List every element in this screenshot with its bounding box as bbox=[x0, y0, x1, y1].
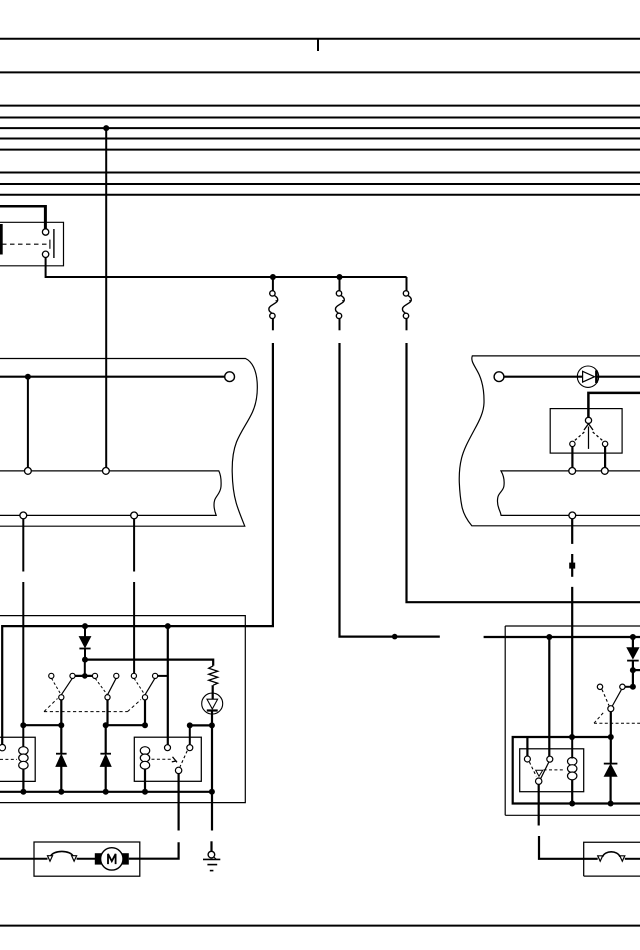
left door switch assembly box (wavy right edge) bbox=[0, 359, 257, 527]
terminal: relay RL3 left bbox=[524, 756, 530, 762]
terminal: S3 left bbox=[597, 684, 602, 689]
diode D4 (up, middle) bbox=[100, 725, 111, 792]
power window motor box (driver) bbox=[34, 842, 140, 876]
switch S3 solid arm bbox=[612, 690, 621, 706]
wire: relay RL2 common down out of box bbox=[178, 774, 180, 831]
switch T-bar feed bbox=[73, 675, 96, 677]
relay RL3 box bbox=[520, 749, 584, 792]
diode D5 (filled, pointing down) bbox=[627, 637, 639, 687]
terminal: pole2 left bbox=[92, 673, 97, 678]
wire: feed dot down to relay RL3 right terminal bbox=[548, 637, 550, 756]
relay RL2 box bbox=[134, 737, 201, 781]
wire: relay RL2 coil to ground bus bbox=[144, 769, 146, 792]
wire: bus line 5 bbox=[0, 127, 640, 129]
wire: ground bus of master switch bbox=[0, 791, 212, 793]
node: dot on right feed wire bbox=[546, 634, 552, 640]
switch S2 arm with arrowhead bbox=[575, 424, 603, 449]
wire: breaker CB2 to page edge bbox=[625, 858, 640, 860]
node: dot on master feed at diode D2 bbox=[82, 623, 88, 629]
wire: stub from D5 node to page edge bbox=[633, 669, 640, 671]
passenger motor box (cut off) bbox=[584, 842, 640, 876]
terminal: switch S2 throw left bbox=[570, 441, 575, 446]
node: dot on T-bar bbox=[82, 673, 88, 679]
wire: relay R1 top terminal drop bbox=[44, 205, 47, 229]
node: dot on master feed at right branch bbox=[165, 623, 171, 629]
terminal: relay RL2 right bbox=[187, 745, 193, 751]
relay RL3 contact dashed alternate bbox=[529, 762, 536, 776]
wire: S3 pivot down to bus bbox=[610, 712, 612, 737]
node: dot on fuse F2 branch bbox=[392, 634, 398, 640]
diode D6 (up) bbox=[604, 737, 618, 804]
wire: right box internal bus bbox=[504, 376, 583, 378]
wire: S2 throw right to connector bbox=[604, 447, 606, 468]
relay RL2 linkage dashed bbox=[152, 758, 172, 760]
wire: relay R1 output to fuse row bbox=[46, 258, 407, 278]
wire: left connector out 1 down to master switch bbox=[22, 519, 24, 572]
right connector box (wavy left edge) bbox=[497, 471, 640, 516]
wire: bus line 4 bbox=[0, 117, 640, 119]
wire: pole3 pivot down bbox=[144, 700, 146, 725]
wire: fuse F3 output down, elbow right to page edge bbox=[407, 343, 640, 602]
node: fuse row dot 2 bbox=[337, 274, 343, 280]
circuit breaker CB1 bbox=[48, 851, 77, 861]
wire: bus line 6 bbox=[0, 138, 640, 140]
node: junction dot on bus line 5 bbox=[103, 125, 109, 131]
wire: S2 throw left to connector bbox=[571, 447, 573, 468]
ground G1 bbox=[203, 841, 220, 870]
wire: jumper segment B bbox=[106, 724, 145, 726]
terminal: switch S2 throw right bbox=[602, 441, 607, 446]
relay RL3 solid arm bbox=[541, 762, 549, 778]
relay RL3 coil bbox=[568, 757, 577, 779]
node: dot bottom bus at coil bbox=[569, 801, 575, 807]
wire: pole1 pivot down bbox=[60, 700, 62, 725]
wire: diode D1 output to page edge bbox=[598, 376, 640, 378]
pivot: pole1 bbox=[59, 695, 64, 700]
terminal: left box bus end bbox=[225, 372, 235, 382]
terminal: pole1 left bbox=[49, 673, 54, 678]
pivot: S3 bbox=[608, 706, 614, 712]
master switch pole alternates (dashed) bbox=[52, 678, 145, 695]
terminal: relay RL3 right bbox=[547, 756, 553, 762]
wire: feed into motor box from page edge bbox=[0, 858, 48, 860]
wire: drop from left box bus bbox=[27, 377, 29, 468]
diode D2 (filled, pointing down) bbox=[79, 626, 90, 660]
wire: to S3 right terminal bbox=[625, 686, 633, 688]
terminal: left connector in 2 bbox=[103, 468, 110, 475]
node: dot below D5 with stub to page edge bbox=[630, 667, 636, 673]
wire: bus line 7 bbox=[0, 149, 640, 151]
wire: branch from D2 to illumination resistor bbox=[85, 660, 213, 666]
wire: bus line 10 bbox=[0, 194, 640, 196]
LED / illumination diode in circle bbox=[202, 693, 223, 714]
circuit breaker CB2 bbox=[598, 852, 625, 861]
wire: bus line 9 bbox=[0, 183, 640, 185]
relay RL2 contact arm dashed bbox=[180, 751, 187, 767]
relay RL2 linkage tick bbox=[172, 757, 177, 763]
relay RL1 linkage dashed bbox=[0, 758, 17, 760]
pivot: relay RL3 bbox=[536, 778, 542, 784]
terminal: pole1 right bbox=[70, 673, 75, 678]
wire: LED down through ground bus to break bbox=[211, 711, 213, 831]
wire: diode D2 to switch T-bar bbox=[84, 660, 86, 676]
wire: pole3 right terminal to branch bbox=[158, 675, 168, 677]
tick on bus line 1 bbox=[317, 39, 319, 51]
switch S2 box bbox=[550, 409, 622, 454]
terminal: relay RL1 contact bbox=[0, 744, 6, 750]
terminal: left connector in 1 bbox=[25, 468, 32, 475]
wire: jumper segment A bbox=[23, 724, 61, 726]
terminal: right connector out bbox=[569, 512, 576, 519]
terminal: left connector out 1 bbox=[20, 512, 27, 519]
relay R1 box bbox=[0, 222, 64, 265]
wire: bus line 3 bbox=[0, 105, 640, 107]
relay RL1 box bbox=[0, 737, 35, 781]
diode D1 in circle bbox=[577, 366, 598, 387]
terminal: pole3 left bbox=[131, 673, 136, 678]
right door switch assembly box (wavy left edge) bbox=[459, 356, 640, 526]
node: dot bottom bus at diode D6 bbox=[608, 801, 614, 807]
relay R1 coil (cut off at page edge) bbox=[0, 224, 3, 255]
wire: free-end feed into right lower box bbox=[484, 636, 640, 638]
terminal: pole2 right bbox=[114, 673, 119, 678]
terminal: pole3 right bbox=[153, 673, 158, 678]
bottom border line bbox=[0, 925, 640, 927]
wire: motor to master switch relay (with connector break) bbox=[129, 842, 179, 859]
node: dot on right feed wire at diode bbox=[630, 634, 636, 640]
terminal: left connector out 2 bbox=[131, 512, 138, 519]
motor M1 bbox=[95, 848, 129, 870]
power window master switch box bbox=[0, 616, 245, 803]
pivot: pole3 bbox=[142, 695, 147, 700]
wire: breaker to motor bbox=[77, 858, 95, 860]
wire: fuse F1 output down into master switch feed bbox=[2, 343, 273, 744]
terminal: right box bus start bbox=[494, 372, 504, 382]
relay RL3 linkage dashed bbox=[544, 769, 565, 771]
switch mechanical linkage (dashed) bbox=[44, 699, 141, 712]
wire: vertical drop from bus line 5 to left connector bbox=[105, 128, 107, 467]
diode D3 (up, left) bbox=[56, 725, 67, 792]
node: dot middle bus at S3 drop bbox=[608, 734, 614, 740]
relay R1 contact bar bbox=[53, 229, 55, 258]
wire: right branch down to relay RL2 terminal bbox=[167, 626, 169, 745]
wire: RL3 common down out of box (with break) bbox=[538, 784, 540, 825]
node: fuse row dot 1 bbox=[270, 274, 276, 280]
terminal: right connector in 1 bbox=[569, 468, 576, 475]
fuse F3 (symbol) bbox=[402, 277, 411, 330]
switch S3 dashed alternate bbox=[602, 690, 609, 706]
S3 linkage dashed bbox=[594, 713, 640, 724]
fuse F2 (symbol) bbox=[335, 277, 344, 330]
node: dot at switch S3 right terminal level bbox=[630, 684, 636, 690]
wire: elbow from page edge into switch S2 bbox=[588, 393, 640, 418]
node dots on ground bus bbox=[20, 789, 215, 795]
node: dot on left box bus bbox=[25, 374, 31, 380]
wire: fuse F2 output down, elbow right, free end bbox=[340, 343, 440, 637]
wire: right connector out down to lower box bbox=[571, 519, 573, 544]
resistor R2 (zigzag) bbox=[209, 666, 218, 685]
fuse F1 (symbol) bbox=[269, 277, 278, 330]
wire: RL3 coil stub from bus bbox=[571, 737, 573, 759]
relay RL2 coil bbox=[140, 747, 149, 769]
relay R1 linkage dashed bbox=[2, 240, 50, 249]
wire: relay RL3 left terminal up to middle bus bbox=[526, 737, 528, 756]
right lower box: passenger window relay unit bbox=[505, 626, 640, 815]
node: dot middle bus at coil bbox=[569, 734, 575, 740]
terminal: relay R1 upper bbox=[42, 229, 48, 235]
wire: jumper segment C bbox=[190, 724, 212, 726]
wire: feed to relay R1 from left edge bbox=[0, 205, 45, 208]
wire: segment C down to relay RL2 right terminal bbox=[189, 725, 191, 744]
pivot: pole2 bbox=[105, 695, 110, 700]
wire: left connector out 2 down to window switch terminal bbox=[133, 519, 135, 572]
wire: bus line 8 bbox=[0, 172, 640, 174]
wire: pole2 pivot down bbox=[106, 700, 108, 725]
node: dot below diode D2 bbox=[82, 657, 88, 663]
terminal: relay RL2 left bbox=[165, 745, 171, 751]
terminal: right connector in 2 bbox=[601, 468, 608, 475]
terminal: relay R1 lower bbox=[42, 251, 48, 257]
switch S2 common terminal bbox=[585, 417, 591, 423]
wire: right box middle bus with U-jumper bbox=[513, 737, 640, 804]
pivot: relay RL2 bbox=[175, 767, 181, 773]
wire: top bus line 1 bbox=[0, 38, 640, 40]
terminal: S3 right bbox=[620, 684, 625, 689]
wire: resume after break down and right to breaker box bbox=[539, 836, 598, 859]
wire: RL3 coil to bottom bus bbox=[571, 780, 573, 804]
node dots on jumpers bbox=[20, 722, 215, 728]
master switch pole arms (solid) bbox=[61, 678, 155, 695]
relay RL1 coil bbox=[19, 747, 28, 769]
wire: relay RL1 coil to ground bus bbox=[22, 769, 24, 792]
relay RL3 contact triangle bbox=[536, 770, 543, 776]
wire: left box internal bus bbox=[0, 376, 225, 378]
wire: top bus line 2 bbox=[0, 71, 640, 73]
left connector box (wavy right edge) bbox=[0, 471, 221, 516]
